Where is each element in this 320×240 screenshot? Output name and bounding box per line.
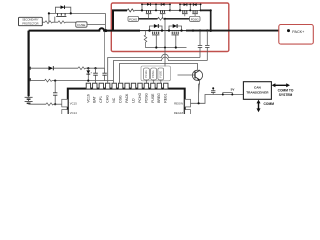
fuse-blow FET Q10 cluster: [48, 5, 106, 22]
LD sense vertical with capacitor C6: [205, 29, 209, 60]
svg-text:PCHG: PCHG: [138, 93, 142, 103]
FET Q4 glyph: [193, 10, 197, 13]
resistor R7: [78, 67, 86, 70]
svg-text:BAT: BAT: [93, 96, 97, 102]
capacitor C4 on VC15: [53, 81, 57, 106]
thick BAT+ rail horizontal with wire hop: [29, 28, 140, 30]
svg-text:BREG: BREG: [157, 93, 161, 103]
svg-text:PACK+: PACK+: [292, 30, 304, 34]
FET Q3 glyph: [183, 10, 187, 13]
gate wire: [54, 17, 56, 23]
pin boxes on top of IC: [86, 83, 168, 89]
rotated pin labels: [86, 93, 167, 103]
gate wire: [155, 35, 157, 48]
svg-text:COMM TO: COMM TO: [278, 88, 294, 92]
svg-text:PDSG: PDSG: [144, 93, 148, 103]
svg-text:PDSG: PDSG: [191, 18, 199, 22]
red highlight box around protection FETs: [111, 3, 229, 52]
node dot gate bus: [164, 18, 166, 20]
wire between pairs: [170, 9, 180, 11]
svg-text:CAN: CAN: [254, 86, 261, 90]
wire from rail junction down to BAT filter: [104, 31, 106, 69]
capacitor C3: [102, 68, 106, 80]
svg-text:DSG: DSG: [119, 95, 123, 103]
resistor R21: [58, 21, 66, 24]
svg-text:PCHG: PCHG: [129, 18, 137, 22]
svg-text:VC15: VC15: [70, 102, 77, 106]
transistor Q10 body: [58, 13, 66, 15]
FET body glyph below rail: [172, 32, 178, 34]
gate wires: [185, 14, 195, 17]
wire drain-source: [49, 12, 106, 14]
lower gate bus: [150, 47, 187, 49]
VC15 pin box on left edge: [62, 99, 77, 107]
ferrite bead FB1: [223, 93, 233, 95]
node dots: [141, 4, 143, 6]
FET body glyph below rail: [153, 32, 159, 34]
svg-text:VC16: VC16: [86, 94, 90, 103]
main CHG FET unit B with body diode loop above rail: [168, 24, 183, 48]
svg-text:VC14: VC14: [70, 111, 77, 114]
diode D6 on loop top: [173, 24, 177, 28]
REGIN pin box on right edge: [174, 99, 190, 107]
thick gate line to PDSG: [165, 18, 190, 20]
body diode rail: [142, 4, 170, 10]
VC14 pin box on left edge (cropped): [62, 110, 77, 118]
COMM vertical double arrow: [257, 100, 275, 113]
gate drive line DSG (l2): [114, 57, 208, 83]
wire segment: [142, 9, 170, 11]
svg-text:NC: NC: [112, 97, 116, 102]
PACK+ terminal box: [279, 25, 314, 45]
svg-text:PACK: PACK: [125, 93, 129, 103]
svg-text:FUSE: FUSE: [151, 93, 155, 103]
sense line (l3): [120, 64, 198, 83]
PCHG label box: [128, 16, 158, 21]
wire corner down from fuse FET to main rail: [104, 13, 106, 30]
svg-text:REGIN: REGIN: [174, 102, 183, 106]
battery stack cells: [25, 31, 33, 105]
gate resistor pills group: [141, 66, 171, 83]
svg-text:FUSE: FUSE: [77, 23, 85, 27]
node dots: [48, 12, 50, 14]
PDSG label box: [190, 16, 201, 21]
IC U1 battery monitor: [68, 89, 185, 121]
gate wire: [175, 35, 177, 48]
svg-text:PROTECTOR: PROTECTOR: [22, 21, 38, 25]
FET Q2 glyph: [161, 10, 165, 13]
svg-text:REG18: REG18: [174, 111, 184, 114]
diode D5 on loop top: [154, 24, 158, 28]
diode D7: [49, 66, 54, 70]
wire secondary protector to gate node: [42, 21, 45, 23]
left branch: diode to BAT filter: [30, 66, 105, 70]
svg-text:COMM: COMM: [264, 102, 275, 106]
wire gate node: [53, 21, 59, 23]
left branch: VC filter wire: [30, 78, 114, 82]
secondary protector U10: [19, 17, 43, 25]
PMOS pair 1 (back-to-back charge FETs): [141, 3, 171, 19]
resistor R20: [45, 21, 53, 24]
REG18 pin box on right edge (cropped): [174, 110, 191, 118]
svg-text:SYSTEM: SYSTEM: [279, 93, 293, 97]
wire REGIN to 5V rail: [191, 87, 244, 104]
zener diode Z1: [86, 68, 90, 80]
FET Q1 glyph: [147, 10, 151, 13]
main DSG FET unit A with body diode loop above rail: [148, 24, 163, 48]
transistor Q5: [178, 70, 203, 104]
svg-text:5V: 5V: [231, 88, 235, 92]
wire to PCH pair 1: [135, 9, 142, 11]
thick PACK+ rail: [140, 30, 186, 32]
gate drive line CHG (l1): [108, 54, 200, 83]
PACK sense vertical with capacitor C5: [192, 29, 202, 57]
svg-text:LD: LD: [131, 98, 135, 103]
capacitor C7 on 5V: [212, 88, 214, 94]
body diode loop: [55, 7, 70, 13]
wire fuse to node: [87, 23, 105, 25]
double arrow to system: [272, 83, 294, 97]
diode D2: [162, 3, 165, 6]
diode D4: [194, 3, 197, 6]
svg-text:TRANSCEIVER: TRANSCEIVER: [246, 90, 269, 94]
PMOS pair 2 (back-to-back): [179, 3, 202, 16]
capacitor C2 on BAT: [91, 68, 98, 83]
node dot fuse junction: [104, 29, 107, 32]
gate riser 1 from PDSG node down to driver pills: [164, 19, 166, 67]
diode D10: [61, 5, 65, 9]
svg-text:PCHG: PCHG: [144, 70, 148, 78]
svg-text:SECONDARY: SECONDARY: [22, 18, 39, 22]
resistor R1: [127, 9, 135, 12]
gate pull-up resistor R5 vertical: [144, 31, 149, 48]
diode D1: [147, 3, 150, 6]
diode D3: [184, 3, 187, 6]
svg-text:CHG: CHG: [106, 95, 110, 103]
wire to fuse: [66, 21, 76, 23]
bottom cell wire with resistor R9: [29, 103, 62, 106]
fuse F1: [76, 22, 87, 27]
CAN transceiver box: [243, 82, 271, 100]
wire top row to corner: [201, 10, 211, 30]
resistor R8: [45, 79, 53, 82]
svg-text:CP1: CP1: [99, 96, 103, 103]
svg-text:PDSG: PDSG: [151, 70, 155, 77]
gate resistor on bus: [158, 17, 166, 20]
thick riser to top FET row: [113, 10, 127, 30]
gate wires: [149, 14, 163, 19]
wire drop to gate line: [48, 13, 50, 22]
svg-text:REG1: REG1: [164, 93, 168, 102]
svg-text:FUSE: FUSE: [158, 71, 162, 78]
